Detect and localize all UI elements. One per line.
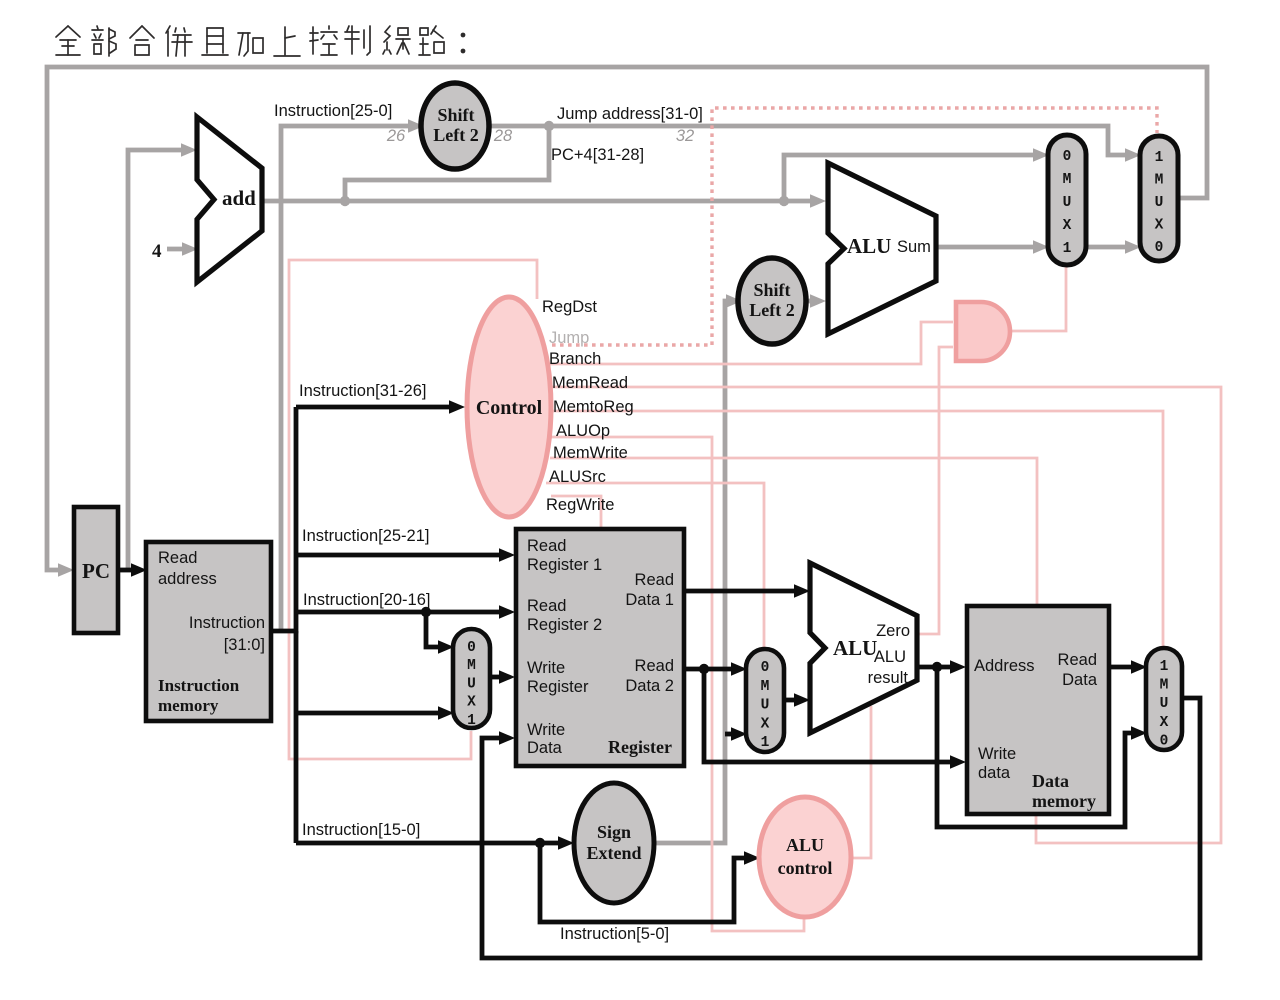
wire: ALU Zero up to AND gate (917, 347, 953, 634)
svg-text:U: U (1160, 696, 1169, 712)
svg-text:Register 2: Register 2 (527, 616, 602, 634)
svg-text:Register: Register (527, 678, 589, 696)
svg-text:add: add (222, 186, 256, 210)
svg-text:MemtoReg: MemtoReg (553, 398, 634, 416)
wire: constant 4 into Add (167, 247, 184, 252)
control signal: MemWrite to data memory (top) (550, 458, 1037, 607)
svg-text:Read: Read (527, 537, 566, 555)
wire: ALU result into data memory Address (917, 665, 951, 670)
wire: sign-extended immediate into ALUSrc mux input 1 (725, 732, 732, 737)
svg-text:Jump address[31-0]: Jump address[31-0] (557, 105, 703, 123)
wire: data memory Read data into final mux input 1 (1109, 665, 1132, 670)
svg-text:Left 2: Left 2 (433, 125, 478, 145)
junction: instruction[20-16] tap (421, 607, 431, 617)
wire: instruction bus from instruction memory (270, 407, 296, 631)
wire: sign extend output up to shift left 2 (branch) (652, 301, 728, 843)
svg-text:Write: Write (527, 721, 565, 739)
svg-text:Instruction[15-0]: Instruction[15-0] (302, 821, 420, 839)
svg-text:X: X (761, 716, 770, 732)
svg-text:0: 0 (1155, 240, 1164, 256)
svg-text:Read: Read (1058, 651, 1097, 669)
svg-text:Read: Read (635, 571, 674, 589)
svg-text:4: 4 (152, 241, 162, 262)
svg-text:ALU: ALU (847, 234, 891, 258)
svg-text:X: X (467, 695, 476, 711)
wire: Instruction[15-11] to write-register mux input 1 (296, 711, 440, 716)
svg-text:26: 26 (386, 127, 406, 145)
wire: write-back from final mux around bottom to Write data (482, 698, 1200, 958)
write-register mux (453, 629, 490, 728)
wire: Read data 2 into ALUSrc mux input 0 (685, 667, 732, 672)
wire: PC to instruction memory read address (118, 568, 132, 573)
svg-text:1: 1 (1155, 150, 1164, 166)
control signal: Jump (dashed) to jump mux select (552, 108, 1157, 345)
ALUSrc mux (746, 649, 784, 752)
svg-text:1: 1 (1063, 241, 1072, 257)
svg-text:U: U (761, 698, 770, 714)
svg-text:ALU: ALU (874, 648, 906, 666)
wire: Add output PC+4 to branch ALU (260, 199, 812, 204)
PC (74, 507, 118, 633)
svg-text:Jump: Jump (549, 329, 589, 347)
control signal: RegWrite down into register file (551, 496, 601, 529)
svg-text:32: 32 (676, 127, 694, 145)
svg-text:RegDst: RegDst (542, 298, 597, 316)
svg-text:Shift: Shift (753, 280, 790, 300)
svg-text:M: M (1155, 173, 1164, 189)
svg-text:M: M (467, 658, 476, 674)
svg-text:U: U (1063, 195, 1072, 211)
svg-text:Read: Read (158, 549, 197, 567)
svg-text:memory: memory (158, 696, 219, 715)
wire: PC-source loop (mux output around top back to PC) (47, 67, 1207, 570)
junction: ALU result tap (932, 662, 942, 672)
wire: PC+4[31-28] jog up to jump address (345, 126, 549, 201)
branch ALU (Add) (828, 163, 936, 334)
junction: shift output / PC+4[31-28] merge (544, 121, 554, 131)
svg-text:ALUSrc: ALUSrc (549, 468, 606, 486)
svg-text:[31:0]: [31:0] (224, 636, 265, 654)
final mux (MemtoReg) (1146, 648, 1182, 750)
svg-text:U: U (467, 676, 476, 692)
svg-text:U: U (1155, 195, 1164, 211)
wire: Instruction[20-16] into Read register 2 (296, 610, 500, 615)
wire: branch ALU Sum output to top mux input 1 (935, 245, 1034, 250)
svg-text:Address: Address (974, 657, 1035, 675)
shift left 2 (jump) (421, 83, 489, 169)
svg-text:1: 1 (761, 735, 770, 751)
svg-text:memory: memory (1032, 791, 1096, 811)
svg-text:Data: Data (1032, 771, 1069, 791)
svg-text:Data 2: Data 2 (625, 677, 674, 695)
svg-text:Instruction: Instruction (158, 676, 240, 695)
svg-text:0: 0 (467, 640, 476, 656)
wire: shift left 2 (branch) output into branch ALU (806, 299, 812, 304)
instruction memory (146, 542, 271, 721)
control signal: RegDst (loop around left to write-register mux) (289, 260, 537, 759)
svg-text:data: data (978, 764, 1011, 782)
wire: ALU control output to ALU (848, 706, 871, 858)
svg-text:Sum: Sum (897, 238, 931, 256)
svg-text:Instruction[20-16]: Instruction[20-16] (303, 591, 431, 609)
title: 全部合併且加上控制線路： (56, 26, 444, 56)
svg-text:PC: PC (82, 559, 110, 583)
wire: Read data 2 tap to data memory write data (704, 669, 951, 762)
wire: Instruction[31-26] into Control (296, 405, 450, 410)
shift left 2 (branch) (738, 258, 806, 344)
svg-text:Register: Register (608, 737, 672, 757)
junction: instruction[15-0]/[5-0] tap (535, 838, 545, 848)
svg-text:Data: Data (527, 739, 563, 757)
svg-text:RegWrite: RegWrite (546, 496, 614, 514)
sign extend (574, 783, 654, 903)
svg-text:Instruction: Instruction (189, 614, 265, 632)
register file (516, 529, 684, 766)
ALU control (759, 797, 851, 917)
wire: ALUSrc mux output into ALU (784, 698, 795, 703)
top mux (PCSrc) (1048, 135, 1086, 265)
svg-text:Data: Data (1062, 671, 1098, 689)
wire: Instruction[5-0] into ALU control (540, 843, 746, 922)
wire: write-register mux output into Write register (490, 675, 500, 680)
svg-text:0: 0 (1063, 149, 1072, 165)
wire: ALU result bypass below data memory to final mux input 0 (937, 667, 1132, 827)
svg-text:Write: Write (978, 745, 1016, 763)
svg-text:result: result (868, 669, 909, 687)
svg-text:ALU: ALU (833, 636, 877, 660)
control signal: ALUSrc to ALUSrc mux select (546, 483, 764, 651)
svg-text:Control: Control (476, 397, 543, 419)
svg-text:Instruction[5-0]: Instruction[5-0] (560, 925, 669, 943)
jump mux (1140, 136, 1178, 261)
svg-text:X: X (1063, 218, 1072, 234)
control signal: AND gate output to top mux select (PCSrc) (1008, 266, 1066, 331)
svg-text:Branch: Branch (549, 350, 601, 368)
svg-text:Zero: Zero (876, 622, 910, 640)
wire: Instruction[20-16] tap down to write-register mux input 0 (426, 612, 440, 647)
wire: Read data 1 into ALU (685, 589, 795, 594)
svg-text:X: X (1160, 715, 1169, 731)
svg-text:Register 1: Register 1 (527, 556, 602, 574)
wire: PC value up to Add (128, 150, 182, 568)
svg-text:28: 28 (493, 127, 513, 145)
control signal: MemRead to data memory (bottom) (551, 387, 1221, 843)
AND gate (branch) (956, 302, 1010, 361)
svg-text:X: X (1155, 218, 1164, 234)
svg-text:M: M (1063, 172, 1072, 188)
title colon (461, 33, 466, 38)
svg-text:Instruction[31-26]: Instruction[31-26] (299, 382, 427, 400)
wire: Instruction[25-21] into Read register 1 (296, 553, 500, 558)
junction: read data 2 tap (699, 664, 709, 674)
svg-text:Instruction[25-21]: Instruction[25-21] (302, 527, 430, 545)
svg-text:Data 1: Data 1 (625, 591, 674, 609)
main ALU (810, 563, 917, 733)
junction: PC+4 / top mux tap (779, 196, 789, 206)
svg-text:ALU: ALU (786, 835, 824, 855)
svg-text:Shift: Shift (437, 105, 474, 125)
svg-text:MemRead: MemRead (552, 374, 628, 392)
control unit (467, 297, 551, 517)
svg-text:address: address (158, 570, 217, 588)
wire: Instruction[25-0] from instruction memory up to shift left 2 (281, 126, 409, 629)
svg-text:M: M (761, 679, 770, 695)
svg-text:Sign: Sign (597, 822, 631, 842)
wire: PC+4 up to top mux input 0 (784, 155, 1034, 201)
svg-text:MemWrite: MemWrite (553, 444, 628, 462)
control signal: MemtoReg to final mux select (552, 411, 1163, 650)
svg-text:0: 0 (761, 660, 770, 676)
svg-text:Write: Write (527, 659, 565, 677)
wire: jump address[31-0] from shift left 2 to jump mux (488, 126, 1126, 155)
control signal: Branch to AND gate (550, 322, 953, 364)
svg-text:Extend: Extend (586, 843, 641, 863)
svg-text:ALUOp: ALUOp (556, 422, 610, 440)
svg-text:PC+4[31-28]: PC+4[31-28] (551, 146, 644, 164)
control signal: ALUOp down to ALU control (548, 437, 804, 931)
svg-text:1: 1 (1160, 659, 1169, 675)
svg-text:control: control (778, 858, 833, 878)
wire: top mux output to jump mux input 0 (1085, 245, 1126, 250)
svg-text:1: 1 (467, 713, 476, 729)
svg-text:Left 2: Left 2 (749, 300, 794, 320)
wire: Instruction[15-0] into sign extend (296, 841, 559, 846)
adder (add) (197, 117, 262, 282)
svg-text:Read: Read (527, 597, 566, 615)
data memory (967, 606, 1109, 814)
svg-text:Instruction[25-0]: Instruction[25-0] (274, 102, 392, 120)
svg-text:M: M (1160, 678, 1169, 694)
junction: PC+4 / jump-address tap (340, 196, 350, 206)
svg-text:0: 0 (1160, 733, 1169, 749)
svg-text:Read: Read (635, 657, 674, 675)
